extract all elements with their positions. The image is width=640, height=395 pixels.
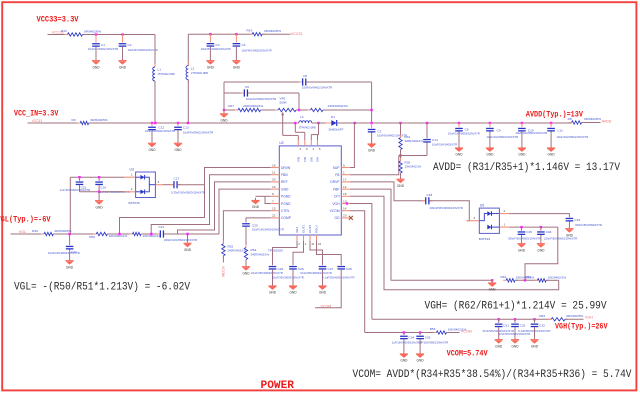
wire U3 rail to VGL (69, 177, 71, 234)
junction C35 node (419, 331, 421, 333)
svg-text:OUT1: OUT1 (302, 224, 306, 233)
svg-text:330nF/50V/0603/X7R: 330nF/50V/0603/X7R (575, 223, 602, 227)
pin 1 of U5 (499, 226, 509, 228)
capacitor C26 (289, 266, 297, 270)
svg-text:240K/0402/1%: 240K/0402/1% (328, 104, 349, 108)
svg-text:GND: GND (511, 344, 519, 348)
pin 15 (CTRL) of U2 (271, 210, 280, 212)
svg-text:C9: C9 (497, 129, 501, 133)
svg-text:JTP0402.0R8: JTP0402.0R8 (158, 72, 176, 76)
capacitor C34 (400, 333, 408, 340)
wire VGL rail left (11, 233, 45, 235)
ground (C26) (289, 283, 297, 294)
svg-text:GND: GND (368, 149, 376, 153)
ground (C25) (268, 283, 276, 294)
wire OUT pin C to C27 (310, 241, 323, 265)
svg-text:GND: GND (96, 205, 104, 209)
wire CTRL to R52 (223, 211, 270, 244)
svg-text:L1: L1 (158, 67, 162, 71)
junction L2 node (187, 122, 189, 124)
svg-text:VCOM: VCOM (461, 329, 472, 333)
junction L1 node (154, 122, 156, 124)
ground (C31) (495, 337, 503, 348)
svg-text:VGL= -(R50/R51*1.213V) = -6.02: VGL= -(R50/R51*1.213V) = -6.02V (14, 281, 190, 293)
svg-text:U3: U3 (130, 168, 134, 172)
svg-text:GND: GND (417, 359, 425, 363)
pin 10 (VGH) of U2 (341, 203, 350, 205)
wire node to R35 (400, 156, 402, 162)
pin 16 (CPI) of U2 (341, 195, 350, 197)
svg-text:AVDD(Typ.)=13V: AVDD(Typ.)=13V (526, 109, 583, 119)
junction C7 node (370, 122, 372, 124)
capacitor C33 (531, 319, 539, 327)
svg-text:GND: GND (537, 248, 545, 252)
ground (C12) (148, 141, 156, 152)
pin 3 of U3 (155, 184, 163, 186)
capacitor C27 (319, 266, 327, 270)
resistor R62 (535, 279, 550, 282)
svg-text:240K/0402/1%: 240K/0402/1% (243, 104, 264, 108)
svg-text:PGND: PGND (281, 195, 291, 199)
svg-text:SW: SW (310, 157, 314, 162)
ground (C19) (565, 226, 573, 237)
svg-text:U5: U5 (480, 203, 484, 207)
junction DRVN riser (118, 233, 120, 235)
capacitor C7 (368, 123, 376, 133)
wire riser to IC top pin 1 (297, 135, 299, 140)
wire gnd stub (U3) (98, 192, 100, 199)
wire R28 to loop right (323, 109, 372, 111)
svg-text:VGH= (R62/R61+1)*1.214V = 25.9: VGH= (R62/R61+1)*1.214V = 25.99V (425, 301, 607, 313)
wire bypass loop inner top-left (224, 92, 244, 94)
svg-text:C21: C21 (159, 225, 165, 229)
diode U5-B (487, 225, 499, 230)
wire C2 to gnd (122, 47, 124, 59)
wire bypass loop inner top-right (248, 92, 299, 94)
svg-text:R53: R53 (430, 327, 436, 331)
svg-text:R14: R14 (247, 29, 253, 33)
svg-text:FBP: FBP (333, 187, 340, 191)
junction R31 node (399, 122, 401, 124)
wire L1 to VCC_IN rail (154, 81, 156, 123)
capacitor C19 (566, 218, 574, 222)
junction C32 node (514, 318, 516, 320)
junction C14 node (426, 122, 428, 124)
resistor R49 (41, 232, 56, 235)
pin 2 of U3 (124, 191, 135, 193)
no-connect X on pin GD (349, 216, 353, 220)
pin 1 (FB) of U2 (341, 174, 350, 176)
svg-text:10uF/16V/0402/X7R: 10uF/16V/0402/X7R (432, 143, 457, 147)
svg-text:VGH(Typ.)=26V: VGH(Typ.)=26V (555, 322, 608, 332)
svg-text:GND: GND (397, 184, 405, 188)
wire OUT pin D to C28 (317, 241, 342, 265)
wire VCOM row (365, 332, 437, 334)
capacitor C25 (269, 266, 277, 270)
wire riser B jog (311, 134, 318, 136)
capacitor C11 (547, 123, 555, 132)
svg-text:3: 3 (158, 180, 160, 184)
svg-text:GND: GND (184, 248, 192, 252)
ground (C34) (400, 351, 408, 362)
wire OUT pin B to C26 (293, 241, 304, 265)
svg-text:19: 19 (272, 185, 276, 189)
wire C33 to gnd (534, 327, 536, 337)
svg-text:C46: C46 (546, 230, 552, 234)
wire R54 to gnd (245, 260, 247, 265)
pin 1 (OUT1) of U2 bottom (303, 235, 305, 241)
svg-text:GND: GND (252, 205, 260, 209)
wire C10 to gnd (521, 132, 523, 146)
wire C35 to gnd (419, 339, 421, 351)
ground (C3) (206, 58, 214, 69)
svg-text:GND: GND (92, 65, 100, 69)
svg-text:U2: U2 (279, 141, 283, 145)
diode U3-B (136, 190, 145, 195)
svg-text:GND: GND (495, 344, 503, 348)
svg-text:5: 5 (319, 147, 321, 151)
diode-pair U3 BAT54S body (136, 172, 156, 198)
svg-text:0.33uF/16V/0603/10%/X7R: 0.33uF/16V/0603/10%/X7R (171, 190, 205, 194)
ground (R35) (396, 177, 404, 188)
svg-text:330nF/50V/0603/10%/X7R: 330nF/50V/0603/10%/X7R (430, 206, 463, 210)
diode U3-A (136, 175, 145, 180)
pin 3 of U5 (467, 220, 480, 222)
svg-text:500K: 500K (280, 100, 288, 104)
svg-text:24: 24 (318, 242, 322, 246)
inductor L1 (153, 64, 155, 84)
capacitor C28 (337, 266, 345, 270)
wire C45 to gnd (521, 235, 523, 241)
svg-text:R27: R27 (228, 104, 234, 108)
resistor R14 (249, 33, 265, 36)
pin 22 (COMP) of U2 (271, 217, 280, 219)
wire C14 to node (426, 143, 428, 156)
junction R31/R35 node (399, 154, 401, 156)
svg-text:GND: GND (269, 291, 277, 295)
svg-text:GND: GND (281, 187, 289, 191)
wire DRVN staircase (120, 168, 271, 235)
ground (R54) (242, 264, 250, 275)
wire VGH row (372, 318, 551, 320)
svg-text:220nF/16V/0603/10%/X7R: 220nF/16V/0603/10%/X7R (164, 238, 197, 242)
junction C3 node (209, 33, 211, 35)
svg-text:C18: C18 (427, 193, 433, 197)
ground (C45) (517, 241, 525, 252)
pin 11 (OUT2) of U2 bottom (309, 235, 311, 241)
svg-text:GND: GND (518, 153, 526, 157)
junction C13 node (177, 122, 179, 124)
svg-text:R9: R9 (72, 118, 76, 122)
svg-text:C31: C31 (503, 323, 509, 327)
resistor R50 (93, 232, 110, 235)
svg-text:L3: L3 (300, 115, 304, 119)
svg-text:12: 12 (343, 185, 347, 189)
svg-text:GND: GND (289, 291, 297, 295)
wire U3 common cathode (145, 177, 150, 192)
svg-text:GND: GND (233, 65, 241, 69)
resistor R35 (399, 158, 402, 176)
wire bypass loop left side (223, 82, 225, 110)
capacitor C3 (207, 34, 215, 47)
wire C20 to R54 (245, 227, 247, 248)
svg-text:10uF/6V/0402/10%/X7R: 10uF/6V/0402/10%/X7R (242, 48, 272, 52)
svg-text:FBN: FBN (281, 173, 288, 177)
wire C31 to gnd (498, 327, 500, 337)
wire C15b to gnd (458, 132, 460, 146)
ground (C35) (416, 351, 424, 362)
svg-text:10uF/6V/0402/10%/X7R: 10uF/6V/0402/10%/X7R (128, 48, 158, 52)
svg-text:R13: R13 (61, 29, 67, 33)
svg-text:BAT54S: BAT54S (129, 201, 140, 205)
svg-text:R49: R49 (32, 229, 38, 233)
junction C33 node (533, 318, 535, 320)
wire R62 to corner (546, 279, 559, 281)
wire bypass loop outer top-left (224, 81, 302, 83)
svg-text:400R/0402/1%: 400R/0402/1% (405, 139, 424, 143)
svg-text:POLY: POLY (315, 225, 319, 233)
svg-text:22uF/35V/0603/10%/X7R: 22uF/35V/0603/10%/X7R (251, 271, 283, 275)
wire C12 to gnd (151, 130, 153, 141)
pin 14 (VCOM) of U2 (341, 210, 350, 212)
wire VCC33 rail 1 left (48, 34, 68, 36)
wire L1 branch down (154, 35, 156, 68)
svg-text:0R/0402/5%: 0R/0402/5% (84, 29, 101, 33)
wire C17 to DRVN net (178, 184, 205, 186)
capacitor C31 (495, 319, 503, 327)
svg-text:20: 20 (272, 178, 276, 182)
wire rail to top pin riser A down (294, 123, 296, 132)
wire U5 common anode (479, 214, 487, 221)
svg-text:0R/0402/5%: 0R/0402/5% (566, 314, 583, 318)
wire L3 to D1 (312, 122, 332, 124)
junction VGH fb tap (524, 279, 526, 281)
svg-text:23: 23 (343, 214, 347, 218)
wire C7 to gnd (371, 133, 373, 142)
svg-text:16: 16 (343, 192, 347, 196)
ground (C22) (66, 258, 74, 269)
wire AVDD rail (337, 122, 572, 124)
svg-text:BAT54S: BAT54S (479, 237, 490, 241)
svg-text:1: 1 (131, 173, 133, 177)
wire PGND pin 7 tie (265, 196, 271, 203)
wire bypass loop inner right side (298, 93, 300, 110)
pin 17 (DRVP) of U2 (341, 181, 350, 183)
wire VCC_IN rail segment 2 (89, 122, 299, 124)
svg-text:22: 22 (272, 214, 276, 218)
svg-text:9: 9 (343, 163, 345, 167)
wire VGH pin run (350, 204, 372, 320)
svg-text:R50: R50 (89, 235, 95, 239)
capacitor C1 (92, 35, 100, 47)
wire fb tap jog to U5 (525, 227, 558, 280)
wire R27 to VR1 (261, 109, 279, 111)
junction C9 node (489, 122, 491, 124)
capacitor C9 (486, 123, 494, 132)
wire bypass loop outer top-right (307, 81, 372, 83)
wire C3 to gnd (209, 47, 211, 59)
svg-text:1uF/16V/0603/10%/X7R: 1uF/16V/0603/10%/X7R (60, 188, 90, 192)
pin 3 (SW) of U2 top (310, 140, 312, 146)
svg-text:GND: GND (66, 265, 74, 269)
resistor R53 (433, 331, 449, 334)
wire loop to AVDD rail (371, 110, 373, 123)
wire REF staircase (178, 182, 271, 234)
junction C16 top (98, 176, 100, 178)
capacitor C35 (416, 333, 424, 340)
svg-text:10uF/6V/0402/10%/X7R: 10uF/6V/0402/10%/X7R (88, 47, 118, 51)
wire bypass loop outer right side (371, 82, 373, 110)
wire rail to R31 (400, 123, 402, 138)
wire VGH row end (565, 318, 584, 320)
wire riser A to IC top pin 2 (304, 132, 306, 140)
junction C15b node (458, 122, 460, 124)
junction FBN riser (150, 233, 152, 235)
capacitor C14 (423, 139, 431, 143)
wire riser B stub (318, 134, 319, 136)
pin 2 (ADJ) of U2 bottom (296, 235, 298, 241)
svg-text:10uF/6V/0402/10%/X7R: 10uF/6V/0402/10%/X7R (377, 134, 407, 138)
junction gnd stub (VGL row) (186, 233, 188, 235)
wire C25 to gnd (272, 270, 274, 284)
potentiometer VR1 wiper arrow (281, 112, 284, 115)
wire C32 to gnd (514, 327, 516, 337)
junction C46 node (540, 226, 542, 228)
junction C10 node (521, 122, 523, 124)
wire gnd stub VGL row (187, 234, 189, 241)
wire U3 output (149, 184, 155, 186)
pin 9 (SUP) of U2 (341, 167, 350, 169)
diode D1 (325, 120, 342, 126)
ground (C33) (530, 337, 538, 348)
wire VR1 to R28 (296, 109, 310, 111)
svg-text:1: 1 (343, 171, 345, 175)
svg-text:C33: C33 (539, 323, 545, 327)
svg-text:GND: GND (400, 359, 408, 363)
svg-text:0R/0402/5%: 0R/0402/5% (55, 229, 72, 233)
pin 5 (SW) of U2 top (317, 140, 319, 146)
wire C1 to gnd (95, 47, 97, 59)
capacitor C4 (233, 34, 241, 47)
svg-text:AVDD: AVDD (602, 119, 612, 123)
svg-text:R63: R63 (539, 314, 545, 318)
junction C16 bottom / gnd (98, 191, 100, 193)
svg-text:GD: GD (335, 216, 341, 220)
svg-text:21: 21 (272, 171, 276, 175)
svg-text:C34: C34 (409, 335, 415, 339)
junction IC top pin riser A (294, 122, 296, 124)
wire U3 pin3 to C17 (163, 184, 173, 186)
svg-text:GND: GND (548, 153, 556, 157)
svg-text:C8: C8 (303, 74, 307, 78)
svg-text:330nF/50V/0603/10%/X7R: 330nF/50V/0603/10%/X7R (508, 237, 541, 241)
pin 7 (PGND) of U2 (271, 203, 280, 205)
capacitor C20 (242, 223, 250, 227)
pin 2 of U5 (499, 213, 509, 215)
ground (C15b) (455, 145, 463, 156)
svg-text:ADJ: ADJ (295, 227, 299, 233)
svg-text:2: 2 (298, 242, 300, 246)
capacitor C21 (series) (157, 230, 167, 237)
op-amp U2 TPS65150 body (279, 146, 341, 235)
svg-text:47uF/35V/0603/10%/X7R: 47uF/35V/0603/10%/X7R (300, 271, 332, 275)
inductor L3 (295, 121, 315, 123)
wire U5 pin2 to C19 (509, 214, 569, 218)
svg-text:10uF/6V/0402/10%/X7R: 10uF/6V/0402/10%/X7R (302, 85, 332, 89)
wire U3 bottom rail (80, 191, 125, 193)
svg-text:GND: GND (486, 153, 494, 157)
capacitor C22 (66, 234, 74, 250)
svg-text:VGL(Typ.)=-6V: VGL(Typ.)=-6V (0, 214, 51, 224)
wire VCOM pin run (350, 211, 365, 333)
svg-text:C28: C28 (346, 267, 352, 271)
wire C4 to gnd (235, 47, 237, 59)
svg-text:C35: C35 (425, 335, 431, 339)
svg-text:18: 18 (272, 163, 276, 167)
wire riser B to IC top pin 3 (310, 135, 312, 141)
svg-text:1: 1 (504, 223, 506, 227)
wire C18 to U5 pin 3 (430, 201, 470, 221)
svg-text:C14: C14 (432, 138, 438, 142)
capacitor C10 (518, 123, 526, 132)
wire L2 branch down (187, 34, 189, 65)
svg-text:POWER: POWER (261, 380, 295, 392)
pin 19 (GND) of U2 (271, 188, 280, 190)
svg-text:0R/0402/5%: 0R/0402/5% (264, 29, 281, 33)
junction C31 node (498, 318, 500, 320)
wire OUT pin A to C25 (273, 241, 298, 265)
wire VR1 wiper down (282, 115, 284, 136)
ground (U3 rail) (95, 198, 103, 209)
pin 8 (PGND) of U2 (271, 195, 280, 197)
svg-text:10uF/16V/0402/10%/X7R: 10uF/16V/0402/10%/X7R (252, 228, 284, 232)
capacitor C32 (511, 319, 519, 327)
capacitor C12 (148, 123, 156, 130)
svg-text:3: 3 (474, 216, 476, 220)
ground (C9) (486, 145, 494, 156)
resistor R28 (307, 108, 326, 111)
svg-text:220nF/50V/0603/10%/X7R: 220nF/50V/0603/10%/X7R (544, 237, 577, 241)
wire VCC_IN rail segment 1 (28, 122, 81, 124)
svg-text:VCOM: VCOM (330, 209, 340, 213)
wire L2 to VCC_IN rail (187, 80, 189, 123)
svg-text:240R/0402/1%: 240R/0402/1% (251, 252, 270, 256)
svg-text:10uF/6V/0402/10%/X7R: 10uF/6V/0402/10%/X7R (145, 129, 175, 133)
junction gnd (R61 row) (491, 279, 493, 281)
svg-text:13K/0402/1%: 13K/0402/1% (405, 165, 422, 169)
junction C1 node (95, 33, 97, 35)
wire SUP riser (350, 123, 355, 168)
svg-text:C4: C4 (242, 43, 246, 47)
svg-text:R8: R8 (568, 117, 572, 121)
wire rail to C14 (426, 123, 428, 138)
pin 24 (POLY) of U2 bottom (316, 235, 318, 241)
capacitor C6 (series) (241, 89, 251, 96)
svg-text:VGH: VGH (332, 202, 340, 206)
svg-text:R62: R62 (525, 275, 531, 279)
resistor R13 (65, 33, 86, 36)
pin 12 (FBP) of U2 (341, 188, 350, 190)
wire C19 to gnd (568, 222, 570, 227)
svg-text:17: 17 (343, 178, 347, 182)
svg-text:C45: C45 (526, 230, 532, 234)
junction VR1/R28 node (298, 109, 300, 111)
svg-text:10uF/16V/0603/10%/X7R: 10uF/16V/0603/10%/X7R (448, 132, 480, 136)
wire C34 to gnd (403, 339, 405, 351)
wire C27 to gnd (322, 270, 324, 284)
svg-text:VCC33=3.3V: VCC33=3.3V (37, 16, 79, 25)
svg-text:C2: C2 (128, 43, 132, 47)
